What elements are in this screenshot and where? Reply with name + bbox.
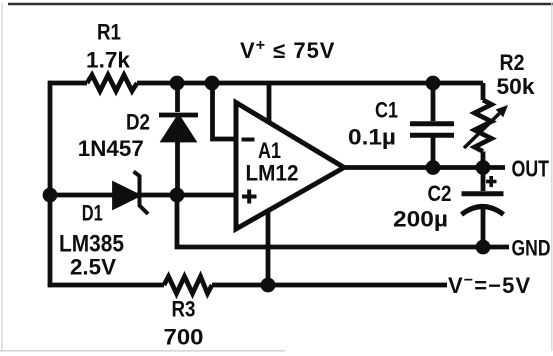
wire left vertical branch bbox=[48, 81, 53, 287]
svg-text:D1: D1 bbox=[82, 201, 103, 226]
svg-text:50k: 50k bbox=[497, 74, 536, 99]
svg-text:1.7k: 1.7k bbox=[86, 48, 131, 73]
junction dot C1 bottom node bbox=[426, 160, 441, 175]
junction dot inverting branch node bbox=[205, 76, 220, 91]
diode D2 bbox=[159, 85, 198, 195]
svg-text:C1: C1 bbox=[375, 98, 398, 123]
capacitor C1 bbox=[410, 85, 454, 165]
diode D1 bbox=[115, 172, 149, 215]
svg-text:1N457: 1N457 bbox=[78, 136, 144, 161]
svg-text:V−=−5V: V−=−5V bbox=[448, 272, 531, 298]
wire node to ground rail bbox=[177, 195, 509, 247]
wire inverting input branch bbox=[213, 85, 237, 139]
svg-text:700: 700 bbox=[164, 325, 204, 350]
svg-text:2.5V: 2.5V bbox=[70, 255, 116, 280]
svg-text:D2: D2 bbox=[126, 110, 150, 135]
svg-text:LM385: LM385 bbox=[59, 231, 124, 258]
svg-text:LM12: LM12 bbox=[246, 161, 299, 186]
capacitor C2 (polarized) bbox=[462, 169, 504, 247]
op-amp U1 triangle bbox=[236, 103, 344, 230]
wire bottom rail right segment (V- rail) bbox=[212, 283, 447, 288]
op-amp non-inverting input plus sign bbox=[242, 190, 257, 204]
junction dot D1-D2 node bbox=[170, 188, 185, 203]
wire output to OUT bbox=[344, 165, 505, 170]
op-amp inverting input minus sign bbox=[242, 138, 255, 142]
svg-text:R3: R3 bbox=[172, 297, 196, 322]
junction dot D2 top node bbox=[170, 76, 185, 91]
wire top rail left segment bbox=[48, 81, 87, 86]
junction dot D1 anode node bbox=[43, 188, 58, 203]
svg-text:R2: R2 bbox=[500, 50, 525, 75]
svg-text:C2: C2 bbox=[428, 181, 452, 206]
resistor R2 (variable) bbox=[475, 83, 492, 166]
resistor R1 bbox=[87, 75, 137, 91]
wire non-inverting input rail (D1 wire) bbox=[50, 193, 236, 198]
svg-text:OUT: OUT bbox=[512, 156, 550, 182]
svg-text:A1: A1 bbox=[258, 138, 281, 163]
arrow of variable resistor R2 bbox=[464, 105, 508, 148]
plus polarity mark of C2 bbox=[486, 176, 497, 187]
junction dot C1 top node bbox=[426, 76, 441, 91]
wire V+ supply pin of op-amp bbox=[267, 85, 272, 121]
wire V- supply pin of op-amp bbox=[266, 209, 271, 285]
junction dot OUT node bbox=[476, 160, 491, 175]
svg-text:R1: R1 bbox=[97, 20, 121, 45]
svg-text:0.1µ: 0.1µ bbox=[348, 125, 396, 150]
svg-text:GND: GND bbox=[512, 236, 551, 261]
junction dot GND node bbox=[476, 240, 491, 255]
svg-text:200µ: 200µ bbox=[393, 207, 448, 232]
junction dot V- rail node bbox=[261, 278, 276, 293]
wire top rail right segment (V+ rail) bbox=[137, 81, 483, 86]
wire bottom rail left segment bbox=[48, 283, 164, 288]
svg-text:V+ ≤ 75V: V+ ≤ 75V bbox=[240, 37, 335, 63]
resistor R3 bbox=[164, 277, 212, 294]
